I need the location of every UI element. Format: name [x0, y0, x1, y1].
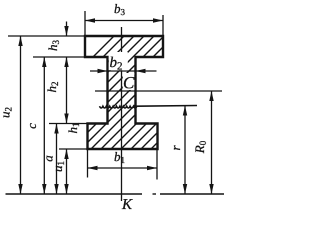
h3 dimension (upper outside arrow)	[64, 22, 68, 37]
a dimension	[54, 124, 58, 195]
extension line inner face (y=149)	[59, 148, 88, 150]
h2 dimension	[64, 57, 68, 124]
R0 dimension	[209, 91, 213, 194]
b1 extension lines	[87, 149, 89, 178]
centerline	[121, 27, 123, 201]
b3 dimension line	[85, 18, 163, 22]
u2 dimension	[18, 36, 22, 194]
extension line top (y=36)	[8, 35, 85, 37]
section outline (I-beam cross-section)	[85, 36, 163, 149]
label b2	[109, 52, 128, 70]
r dimension	[183, 106, 187, 195]
svg-text:K: K	[121, 197, 133, 213]
centroid line (to R0)	[95, 90, 222, 92]
extension line flange bottom (y=57)	[33, 56, 85, 58]
neutral axis line (to r), wavy through web	[100, 106, 198, 109]
svg-text:c: c	[24, 123, 39, 129]
b2 dimension (arrows outside)	[90, 69, 157, 73]
c dimension	[42, 57, 46, 194]
baseline axis (dash-dot)	[6, 193, 225, 195]
svg-text:a: a	[41, 155, 56, 162]
svg-text:C: C	[123, 73, 135, 92]
extension line web bottom (y=123.5)	[49, 123, 88, 125]
b1 dimension line	[88, 166, 158, 170]
b3 extension lines	[84, 11, 86, 36]
u1 dimension	[64, 149, 68, 194]
label C	[123, 73, 135, 90]
